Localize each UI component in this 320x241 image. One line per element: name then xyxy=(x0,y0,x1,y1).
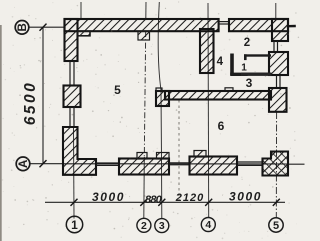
right wall window lines upper xyxy=(273,41,275,52)
svg-text:1: 1 xyxy=(241,63,247,74)
bottom dimension line xyxy=(45,201,285,203)
tick at B xyxy=(40,24,47,31)
axis circle 2 xyxy=(137,218,151,232)
middle wall door jamb tab xyxy=(225,88,233,91)
pier 2 tab xyxy=(194,151,206,158)
axis B horizontal line left xyxy=(30,26,65,28)
dim tick axis 3 xyxy=(158,199,165,206)
left wall pier xyxy=(64,86,81,108)
svg-text:2: 2 xyxy=(244,37,250,49)
axis A line across building xyxy=(63,163,288,165)
bottom wall window right xyxy=(237,161,263,163)
top wall band right segment xyxy=(229,19,288,31)
axis A horizontal line right xyxy=(288,163,305,165)
svg-text:3: 3 xyxy=(246,76,253,90)
axis B horizontal line right xyxy=(288,25,296,28)
middle wall door sill bump xyxy=(156,88,162,91)
axis A horizontal line left xyxy=(30,163,63,165)
svg-text:3000: 3000 xyxy=(229,190,262,204)
interior step at top-left corner xyxy=(78,31,91,36)
dim tick axis 1 xyxy=(71,199,78,206)
bottom wall opening line middle xyxy=(169,162,190,164)
svg-text:3: 3 xyxy=(159,220,165,232)
grid line axis 1 top stub xyxy=(80,2,82,20)
door jamb tab below top wall near axis 2 xyxy=(138,31,150,40)
axis circle 3 xyxy=(155,219,169,233)
left wall window lines upper xyxy=(69,61,71,86)
grid line axis 1 bottom stub xyxy=(73,128,76,219)
pier 1 tab b xyxy=(157,153,170,160)
grid line axis 4 xyxy=(207,3,210,218)
left wall window lines lower xyxy=(69,107,71,127)
faint opening centerline x179 xyxy=(178,100,180,201)
top-right corner leg xyxy=(272,19,288,41)
svg-text:3000: 3000 xyxy=(92,190,125,204)
bottom wall pier 1 xyxy=(119,159,169,175)
thin partition wall left of room 1 xyxy=(230,54,234,76)
right wall pier 2 xyxy=(269,88,287,112)
scan edge artifact left xyxy=(0,25,2,241)
middle wall band xyxy=(165,91,271,100)
thin partition foot xyxy=(230,73,248,76)
svg-text:В: В xyxy=(17,23,29,31)
middle wall left end block xyxy=(156,91,169,106)
interior wall between rooms 5 and 4 xyxy=(200,29,214,73)
top wall window lines in gap xyxy=(219,21,229,23)
top wall band left segment xyxy=(65,19,219,31)
top-left corner leg xyxy=(65,19,78,61)
grid line axis 2 xyxy=(145,2,147,20)
svg-text:6: 6 xyxy=(218,119,225,133)
axis circle 1 xyxy=(66,216,82,232)
svg-text:5: 5 xyxy=(114,83,121,97)
grid line axis 3 xyxy=(158,2,162,219)
svg-text:5: 5 xyxy=(273,220,279,232)
svg-text:6500: 6500 xyxy=(22,81,39,125)
bottom wall pier 2 xyxy=(190,157,238,175)
axis circle 4 xyxy=(201,218,215,232)
bottom-right corner cross hatch overlay xyxy=(263,152,289,176)
grid line axis 5 top stub xyxy=(275,3,277,20)
left dimension line 6500 vertical xyxy=(42,27,44,164)
axis circle B xyxy=(15,21,29,35)
tick at A xyxy=(40,160,47,167)
bottom-left corner L wall xyxy=(63,127,96,175)
dim tick axis 2 xyxy=(140,199,147,206)
right wall window lines middle xyxy=(276,75,278,88)
partition between rooms 2 and 1 xyxy=(244,54,271,56)
pier 1 tab a xyxy=(137,153,147,160)
partition hook xyxy=(244,54,247,60)
dim tick axis 5 xyxy=(273,199,280,206)
axis circle A xyxy=(16,157,30,171)
svg-text:4: 4 xyxy=(217,56,224,68)
svg-text:4: 4 xyxy=(205,219,211,231)
svg-text:2: 2 xyxy=(141,220,147,232)
dim tick axis 4 xyxy=(205,199,212,206)
bottom-right corner wall xyxy=(263,152,289,176)
axis circle 5 xyxy=(269,218,283,232)
partition between rooms 1 and 3 xyxy=(241,73,272,76)
svg-text:2120: 2120 xyxy=(175,192,204,204)
grid line axis 5 lower dash-dot xyxy=(275,112,277,218)
right wall pier 1 xyxy=(269,52,288,75)
bottom wall window left xyxy=(96,162,119,164)
